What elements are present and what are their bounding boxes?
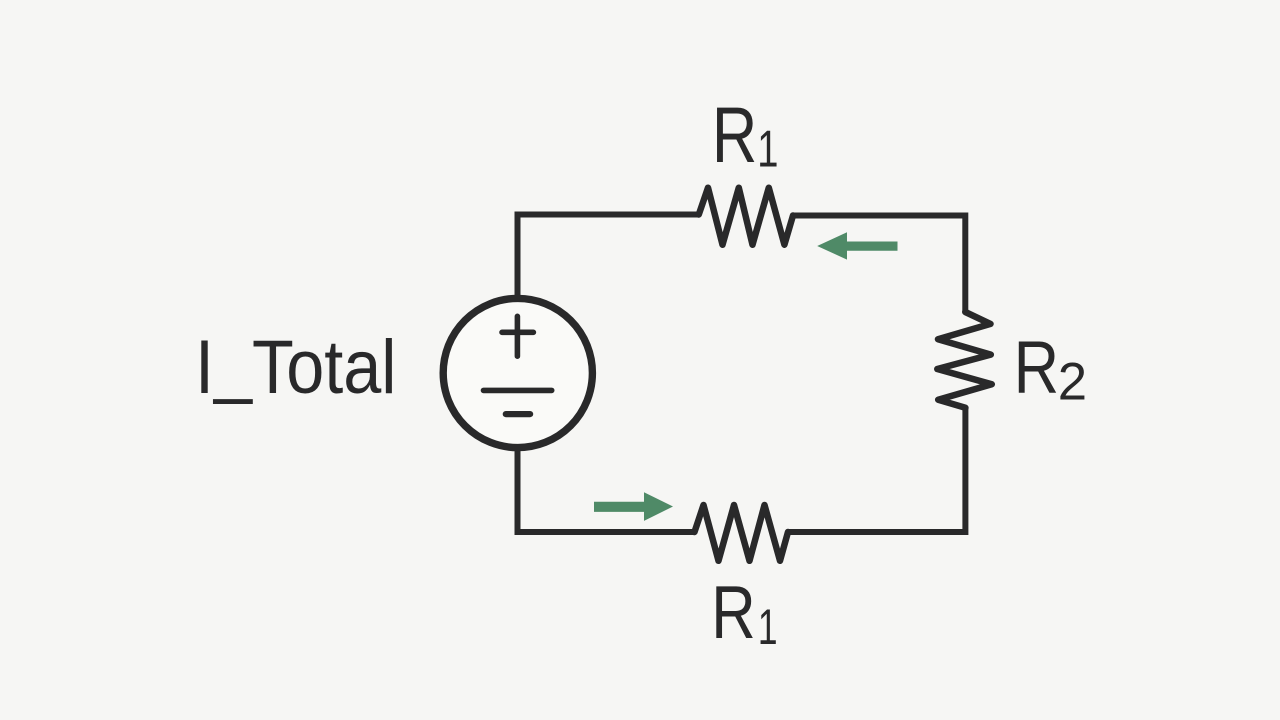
svg-text:2: 2 [1058, 353, 1087, 412]
current arrow (right, green) [594, 492, 673, 521]
voltage source V1 (circle) [443, 298, 592, 447]
wire: right lower vertical + bottom-right corner + bottom right segment [788, 408, 965, 532]
label R1 (top) [712, 92, 779, 179]
label R2 [1014, 326, 1087, 412]
resistor R2 (right vertical zigzag) [937, 312, 992, 408]
svg-text:R: R [712, 92, 757, 179]
wire: top-left vertical segment [515, 215, 521, 300]
wire: bottom left segment + bottom-left corner + left lower vertical [518, 448, 695, 532]
svg-text:1: 1 [757, 120, 778, 178]
label R1 (bottom) [711, 570, 777, 656]
svg-text:R: R [1014, 326, 1059, 409]
battery short plate line (minus) [506, 411, 530, 417]
svg-text:I_Total: I_Total [195, 322, 396, 410]
resistor R1 (top zigzag) [699, 188, 793, 245]
svg-text:R: R [711, 570, 755, 654]
resistor R1 (bottom zigzag) [695, 505, 789, 561]
wire: top horizontal right segment + top-right corner + right upper vertical [793, 216, 965, 313]
wire: top horizontal left segment [515, 212, 700, 218]
svg-text:1: 1 [758, 600, 778, 656]
plus symbol inside source [502, 316, 533, 356]
battery long plate line [484, 388, 552, 394]
current arrow (left, green) [817, 232, 897, 259]
